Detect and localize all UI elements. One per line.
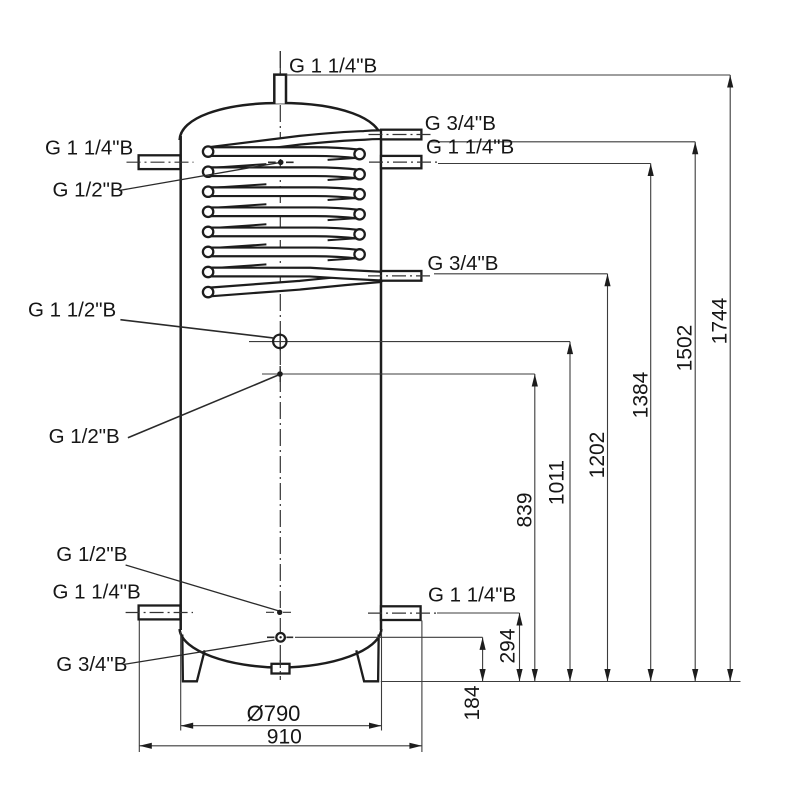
coil end circle L4 xyxy=(203,207,213,217)
coil last bar into outlet port xyxy=(208,272,379,276)
vertical centerline of tank xyxy=(279,51,281,662)
coil bar tube 3 xyxy=(208,192,360,195)
svg-text:1744: 1744 xyxy=(709,297,732,344)
node G 1/2"B bottom xyxy=(266,611,294,613)
coil end circle L5 xyxy=(203,227,213,237)
dim line 184 xyxy=(482,637,484,681)
coil bar tube 1 xyxy=(208,152,360,155)
node G 3/4"B bottom xyxy=(267,636,293,638)
dim line 1502 xyxy=(694,142,696,682)
leader G 3/4"B bottom xyxy=(124,640,275,664)
ground baseline xyxy=(381,681,741,683)
ref line 1502 xyxy=(429,141,695,143)
coil end circle L1 xyxy=(203,146,213,156)
svg-text:G 3/4"B: G 3/4"B xyxy=(425,112,496,135)
svg-text:G 1 1/4"B: G 1 1/4"B xyxy=(53,581,141,604)
port G 1 1/2"B (circle on centerline) xyxy=(279,333,281,351)
leader G 1/2"B bottom xyxy=(126,565,279,611)
leader G 1/2"B middle xyxy=(128,375,279,438)
top pipe G 1 1/4"B xyxy=(274,75,286,104)
svg-text:839: 839 xyxy=(514,492,537,527)
svg-text:294: 294 xyxy=(497,628,520,663)
coil end circle L3 xyxy=(203,187,213,197)
svg-text:G 1 1/4"B: G 1 1/4"B xyxy=(45,137,133,160)
left leg xyxy=(182,635,204,682)
port G 1 1/4"B top left xyxy=(139,155,181,169)
coil end circle R3 xyxy=(354,189,364,199)
node G 1/2"B top (in coil) xyxy=(268,161,294,163)
coil return tube 1 (stubs behind bars) xyxy=(211,164,266,168)
ref line 1011 xyxy=(249,341,570,343)
ref line 839 xyxy=(262,373,535,375)
drain plug xyxy=(272,664,290,674)
port G 1 1/4"B bottom left xyxy=(139,606,181,620)
svg-text:G 1/2"B: G 1/2"B xyxy=(53,179,124,202)
svg-text:G 3/4"B: G 3/4"B xyxy=(427,252,498,275)
svg-text:G 1 1/2"B: G 1 1/2"B xyxy=(28,299,116,322)
svg-text:1502: 1502 xyxy=(674,325,697,372)
coil return tube 3 (stubs behind bars) xyxy=(211,204,266,208)
tank bottom dome xyxy=(180,629,382,668)
svg-text:G 3/4"B: G 3/4"B xyxy=(56,653,127,676)
svg-text:G 1 1/4"B: G 1 1/4"B xyxy=(426,136,514,159)
ref line 1384 xyxy=(438,163,651,165)
coil outlet tube to mid right port xyxy=(208,278,379,292)
dim line 910 xyxy=(139,745,422,747)
dim line 294 xyxy=(519,613,521,682)
coil end circle L2 xyxy=(203,167,213,177)
leader G 1 1/2"B xyxy=(120,320,273,338)
coil end circle R2 xyxy=(354,169,364,179)
svg-text:184: 184 xyxy=(461,685,484,720)
tank right wall xyxy=(380,136,383,630)
svg-text:G 1/2"B: G 1/2"B xyxy=(56,543,127,566)
coil end circle L6 xyxy=(203,247,213,257)
dim line 1011 xyxy=(569,342,571,682)
svg-text:G 1 1/4"B: G 1 1/4"B xyxy=(428,584,516,607)
ref line 184 xyxy=(295,636,483,638)
port G 1 1/4"B right xyxy=(381,156,421,168)
svg-text:G 1 1/4"B: G 1 1/4"B xyxy=(289,54,377,77)
svg-text:1202: 1202 xyxy=(586,432,609,479)
coil return tube 6 (stubs behind bars) xyxy=(211,264,266,268)
ref line 1744 (top of pipe) xyxy=(286,74,730,76)
port G 3/4"B mid right xyxy=(381,271,421,281)
svg-text:910: 910 xyxy=(267,726,302,749)
coil end circle L7 xyxy=(203,267,213,277)
arrowheads xyxy=(480,637,486,650)
coil bar tube 4 xyxy=(208,212,360,215)
coil bar tube 2 xyxy=(208,172,360,175)
dim line 839 xyxy=(534,374,536,682)
coil end circle L8 xyxy=(203,287,213,297)
coil return tube 4 (stubs behind bars) xyxy=(211,224,266,228)
svg-text:1011: 1011 xyxy=(546,460,569,505)
svg-text:1384: 1384 xyxy=(630,371,653,418)
tank top dome xyxy=(180,103,382,140)
dim line 1384 xyxy=(650,164,652,682)
node G 1/2"B middle xyxy=(279,366,281,382)
dim line 1202 xyxy=(607,274,609,682)
dim line 1744 xyxy=(729,75,731,682)
coil end circle R6 xyxy=(354,249,364,259)
dim line dia790 xyxy=(181,725,382,727)
coil inlet tube from top right port xyxy=(208,135,380,152)
coil end circle R1 xyxy=(354,149,364,159)
port G 1 1/4"B bottom right xyxy=(381,606,421,620)
ref line 1202 xyxy=(434,273,608,275)
coil return tube 2 (stubs behind bars) xyxy=(211,184,266,188)
port G 3/4"B top right xyxy=(381,130,421,140)
coil end circle R5 xyxy=(354,229,364,239)
ref line 294 xyxy=(437,612,520,614)
right leg xyxy=(356,635,378,682)
coil bar tube 5 xyxy=(208,232,360,235)
tank left wall xyxy=(179,136,182,630)
extension lines xyxy=(180,632,182,731)
coil return tube 5 (stubs behind bars) xyxy=(211,244,266,248)
coil bar tube 6 xyxy=(208,252,360,255)
leader G 1/2"B top xyxy=(119,163,278,191)
svg-text:G 1/2"B: G 1/2"B xyxy=(49,425,120,448)
coil end circle R4 xyxy=(354,209,364,219)
svg-text:Ø790: Ø790 xyxy=(247,701,301,726)
